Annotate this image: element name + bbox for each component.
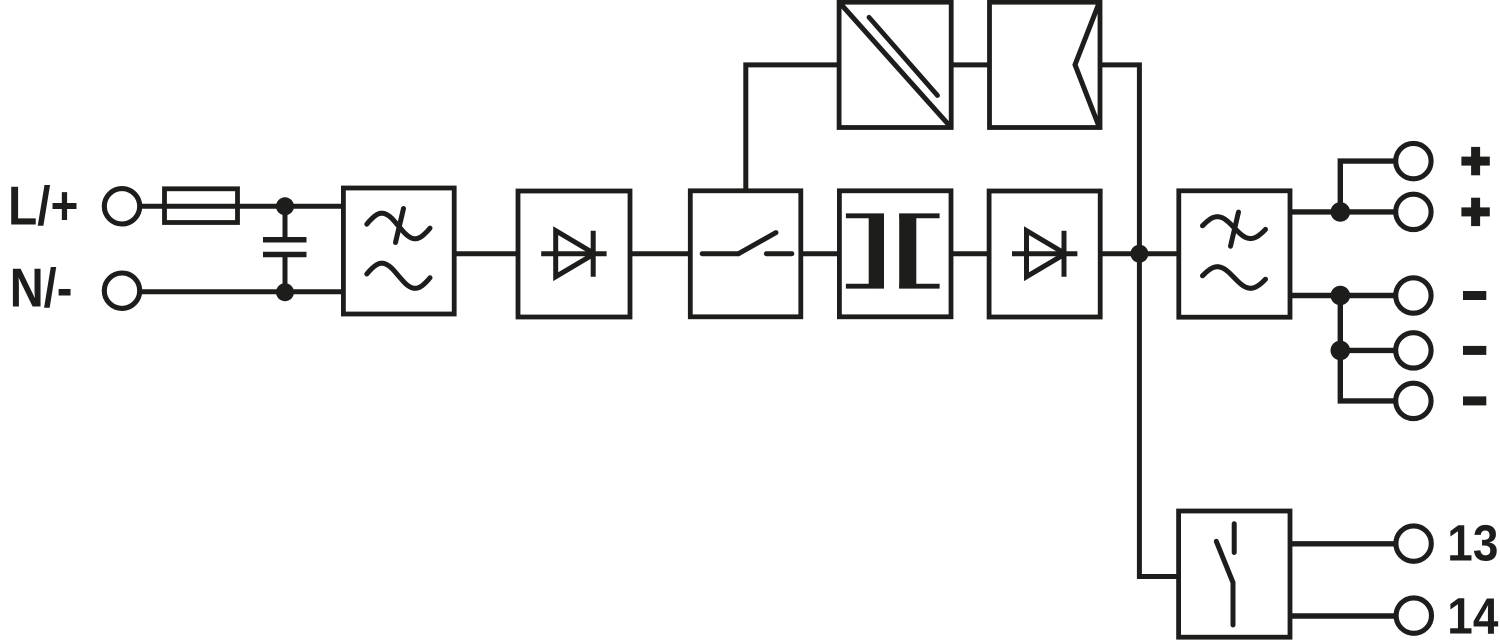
- svg-text:13: 13: [1447, 515, 1498, 572]
- svg-text:L/+: L/+: [8, 174, 78, 236]
- svg-text:N/-: N/-: [10, 257, 73, 318]
- svg-text:14: 14: [1447, 588, 1498, 640]
